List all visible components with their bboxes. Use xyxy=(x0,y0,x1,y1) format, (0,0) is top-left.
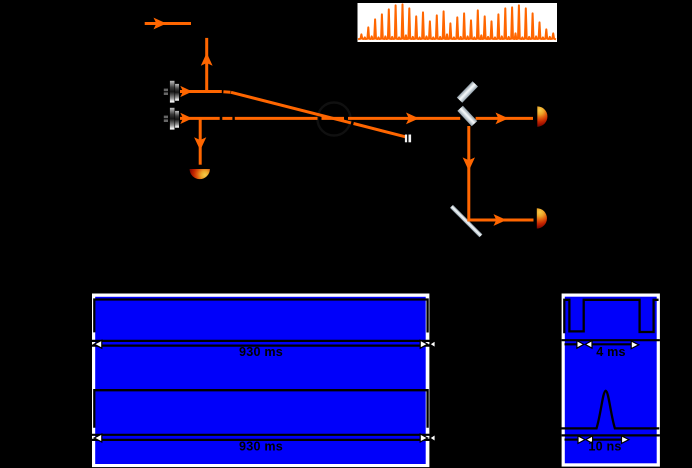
spectrum comb trace xyxy=(358,4,556,39)
arrowhead before beamsplitter xyxy=(406,113,419,125)
right panel blue field xyxy=(565,297,657,464)
fiber collimator 2 xyxy=(164,108,179,130)
wire: lower beam from collimator 2 xyxy=(180,117,533,120)
dimension bar 4ms xyxy=(562,340,660,344)
svg-text:4 ms: 4 ms xyxy=(596,345,626,359)
wire: vertical up to spectrum xyxy=(205,38,208,90)
wire: input arrow top-left xyxy=(145,22,191,25)
svg-text:930 ms: 930 ms xyxy=(239,440,283,454)
right panel white frame xyxy=(562,294,660,467)
dimension arrowheads 10ns xyxy=(578,436,585,444)
wire: upper beam from collimator 1 xyxy=(180,92,406,137)
arrowhead collimator 2 output xyxy=(180,113,192,124)
left panel blue field xyxy=(95,297,426,464)
detector 3 (monitor, bottom half-disc) xyxy=(190,169,210,179)
detector 1 (right, upper) xyxy=(537,106,547,126)
arrowhead down from beamsplitter xyxy=(463,157,475,170)
arrowhead collimator 1 output xyxy=(180,86,192,97)
dimension arrowheads 4ms xyxy=(577,341,584,349)
lens circle (faint) at beam crossing xyxy=(318,103,351,136)
trace gate (4 ms) xyxy=(564,300,658,334)
arrowhead to detector 2 xyxy=(494,214,507,226)
folding mirror lower xyxy=(450,205,482,237)
dimension arrowheads bar 1 xyxy=(94,340,102,348)
dimension bar 10ns xyxy=(562,435,660,439)
dimension arrowheads bar 2 xyxy=(94,434,102,442)
arrowhead down to monitor detector xyxy=(194,137,206,150)
left panel white frame xyxy=(92,294,429,468)
trace pulse 1 (930 ms high) xyxy=(94,300,427,333)
mirror upper (of beamsplitter pair) xyxy=(457,81,478,103)
beamsplitter lower bar xyxy=(457,106,477,127)
svg-text:10 ns: 10 ns xyxy=(588,440,621,454)
arrowhead on input arrow xyxy=(154,18,167,30)
dimension bar 2 xyxy=(92,435,430,440)
svg-text:930 ms: 930 ms xyxy=(239,345,283,359)
wire: beamsplitter down branch xyxy=(467,126,470,219)
spectrum box xyxy=(358,3,558,42)
beam block marks II xyxy=(405,135,407,143)
arrowhead after beamsplitter xyxy=(496,113,509,125)
trace pulse (10 ns) xyxy=(561,391,659,429)
trace pulse 2 (930 ms high) xyxy=(94,390,427,428)
arrowhead up xyxy=(201,53,213,66)
fiber collimator 1 xyxy=(164,81,179,103)
wire: mirror to detector 2 xyxy=(467,219,533,222)
detector 2 (right, lower) xyxy=(537,208,547,228)
dimension bar 1 xyxy=(92,341,430,346)
wire: branch down to monitor detector xyxy=(199,120,202,165)
